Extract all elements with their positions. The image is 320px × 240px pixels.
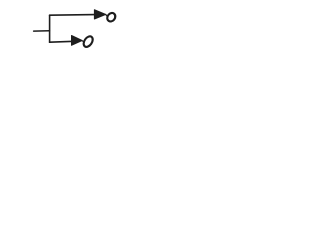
- wire: bottom horizontal branch: [50, 40, 74, 43]
- wire: top horizontal branch: [50, 14, 96, 17]
- arrowhead: top (filled triangle): [94, 10, 105, 19]
- arrowhead: bottom (filled triangle): [72, 36, 83, 46]
- terminal circle: top open ellipse (sketchy): [106, 11, 117, 23]
- wire: input stub: [34, 30, 50, 32]
- terminal circle: bottom open ellipse (sketchy): [82, 35, 95, 49]
- wire: vertical branch: [49, 15, 51, 42]
- wire: sketch connector from top arrow tip to circle: [106, 15, 108, 17]
- wire: sketch connector from bottom arrow tip to circle: [82, 41, 84, 42]
